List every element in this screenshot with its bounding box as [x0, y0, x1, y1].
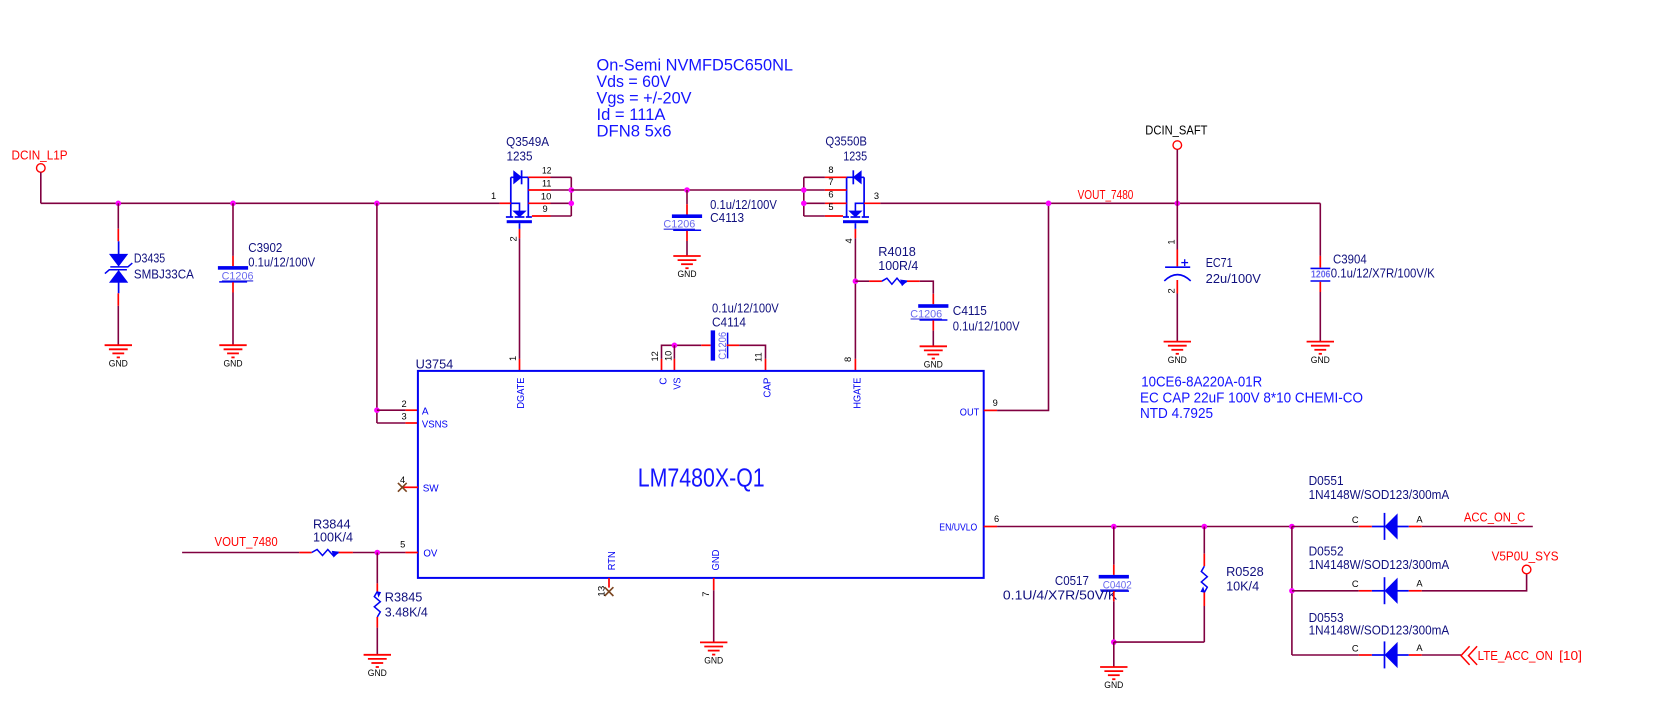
pin stub C0517 bottom	[1113, 591, 1115, 601]
pin stub R4018 right	[907, 280, 920, 282]
node junction C0517/R0528 bottom	[1111, 639, 1117, 645]
wire main input net y=203	[41, 202, 500, 204]
svg-text:GND: GND	[1168, 355, 1187, 365]
capacitor C4115	[918, 304, 948, 308]
svg-text:10: 10	[541, 192, 552, 202]
svg-text:GND: GND	[1311, 355, 1330, 365]
node junction at D3435	[116, 201, 122, 207]
ground C3902	[219, 344, 246, 346]
wire D0552 anode to V5P0U_SYS	[1422, 574, 1527, 591]
svg-text:1: 1	[508, 356, 518, 361]
pin stub R3845 bottom	[376, 617, 378, 628]
svg-text:7: 7	[701, 592, 711, 597]
ground R3845	[364, 654, 391, 656]
svg-text:11: 11	[542, 178, 551, 188]
svg-text:1235: 1235	[507, 150, 533, 164]
svg-text:DCIN_SAFT: DCIN_SAFT	[1145, 123, 1207, 138]
svg-text:10CE6-8A220A-01R: 10CE6-8A220A-01R	[1141, 374, 1262, 391]
op-amp U3754 IC body	[418, 371, 984, 578]
wire C4113 branch	[686, 190, 688, 204]
svg-text:CAP: CAP	[763, 377, 774, 397]
node junction at DCIN_SAFT drop	[1175, 201, 1181, 207]
svg-text:GND: GND	[711, 550, 722, 571]
svg-text:6: 6	[828, 190, 833, 200]
wire VOUT_7480 net y=203	[880, 202, 1320, 204]
wire EN/UVLO net	[997, 526, 1292, 528]
wire Q3550B bus	[803, 177, 805, 216]
svg-text:LTE_ACC_ON: LTE_ACC_ON	[1478, 649, 1553, 663]
pin stub C4114 right	[727, 344, 740, 346]
svg-text:1235: 1235	[843, 150, 867, 164]
node junction drain pin10	[569, 201, 575, 207]
svg-text:RTN: RTN	[607, 551, 618, 570]
node junction at A/VSNS drop	[374, 201, 380, 207]
pin stub VSNS (3)	[405, 422, 418, 424]
svg-text:GND: GND	[368, 668, 387, 678]
pin stub U3754 OV (5)	[405, 552, 418, 554]
svg-text:SMBJ33CA: SMBJ33CA	[134, 267, 195, 281]
svg-text:1206: 1206	[1311, 268, 1331, 280]
ground C0517	[1100, 666, 1127, 668]
wire to D0552	[1292, 590, 1359, 592]
wire HGATE net Q3550B pin4 to U3754 pin8	[854, 238, 856, 359]
pin stub C4115 top	[932, 294, 934, 304]
pin stub U3754 C (12)	[661, 359, 663, 371]
pin stub C4115 bottom	[932, 320, 934, 330]
node junction R4018 tap	[853, 278, 859, 284]
svg-text:A: A	[1416, 579, 1423, 589]
svg-text:A: A	[1416, 643, 1423, 653]
node junction R0528	[1202, 524, 1208, 530]
svg-text:100K/4: 100K/4	[313, 531, 353, 545]
pin stub C4113 top	[686, 204, 688, 214]
wire C3904 to ground	[1319, 292, 1321, 342]
svg-text:22u/100V: 22u/100V	[1206, 272, 1262, 286]
svg-text:Vgs = +/-20V: Vgs = +/-20V	[597, 90, 692, 108]
wire to D0553	[1292, 654, 1359, 656]
node junction diode branch	[1289, 524, 1295, 530]
pin stub R0528 top	[1203, 554, 1205, 567]
wire R3845 to ground	[376, 628, 378, 655]
svg-text:SW: SW	[423, 483, 440, 494]
diode D0552	[1372, 590, 1385, 592]
node junction VOUT at x=1048	[1046, 201, 1052, 207]
svg-text:VOUT_7480: VOUT_7480	[1078, 187, 1134, 202]
svg-text:0.1u/12/100V: 0.1u/12/100V	[248, 255, 315, 269]
svg-text:9: 9	[993, 398, 998, 408]
terminal DCIN_L1P	[37, 164, 46, 173]
svg-text:D0552: D0552	[1309, 545, 1344, 559]
svg-text:C: C	[1352, 643, 1359, 653]
pin stub C0517 top	[1113, 565, 1115, 575]
wire VOUT lower net	[182, 552, 299, 554]
pin stub U3754 SW (4) with no-connect	[403, 486, 418, 488]
svg-text:NTD 4.7925: NTD 4.7925	[1140, 405, 1213, 422]
pin stub Q3549A gate pin1	[500, 202, 511, 204]
svg-text:3.48K/4: 3.48K/4	[385, 606, 428, 620]
svg-text:1N4148W/SOD123/300mA: 1N4148W/SOD123/300mA	[1309, 488, 1450, 502]
pin stub U3754 CAP (11)	[765, 359, 767, 371]
off-page connector LTE_ACC_ON	[1461, 646, 1470, 665]
svg-text:Q3549A: Q3549A	[506, 135, 550, 149]
svg-text:4: 4	[400, 475, 405, 485]
ground D3435	[105, 344, 132, 346]
svg-text:R3845: R3845	[385, 590, 423, 604]
node junction at C3902	[230, 201, 236, 207]
pin stub A (2)	[405, 409, 418, 411]
resistor R3845	[374, 592, 380, 618]
wire D3435 to ground	[117, 306, 119, 345]
svg-text:10: 10	[664, 351, 674, 361]
pin stub R4018 left	[869, 280, 882, 282]
wire U3754 GND pin to ground	[713, 590, 715, 642]
svg-text:R4018: R4018	[878, 245, 916, 259]
capacitor C3904	[1311, 267, 1331, 269]
pin stubs Q3549A drain 12/11/10/9	[528, 176, 550, 178]
resistor R0528	[1201, 566, 1207, 592]
svg-text:3: 3	[402, 412, 407, 422]
svg-text:V5P0U_SYS: V5P0U_SYS	[1492, 549, 1559, 563]
svg-text:ACC_ON_C: ACC_ON_C	[1464, 511, 1525, 525]
svg-text:12: 12	[542, 165, 551, 175]
svg-text:OUT: OUT	[960, 407, 979, 418]
pin stub R0528 bottom	[1203, 593, 1205, 607]
node junction pin A	[374, 407, 380, 413]
pin stub R3844 right	[339, 552, 353, 554]
capacitor C4113	[672, 214, 702, 218]
wire D0553 anode to off-page	[1422, 654, 1461, 656]
svg-text:[10]: [10]	[1559, 649, 1582, 663]
svg-text:R0528: R0528	[1226, 565, 1264, 579]
svg-text:9: 9	[543, 204, 548, 214]
ground U3754 pin7	[700, 641, 727, 643]
svg-text:8: 8	[843, 357, 853, 362]
wire to R4018	[855, 280, 869, 282]
svg-text:7: 7	[828, 177, 833, 187]
wire VS/C pins to C4114	[662, 345, 702, 359]
wire bottom link to R0528	[1114, 641, 1205, 643]
pin stub C3902 top	[232, 256, 234, 266]
diode D0553	[1372, 654, 1385, 656]
capacitor C3902	[218, 266, 248, 270]
svg-text:GND: GND	[224, 358, 243, 368]
svg-text:HGATE: HGATE	[852, 377, 863, 408]
wire EC71 branch	[1176, 203, 1178, 249]
pin stubs Q3550B 8/7/6/5	[825, 176, 847, 178]
pin stub C3904 top	[1319, 256, 1321, 268]
svg-text:GND: GND	[1104, 680, 1123, 690]
wire middle net y=190	[571, 189, 804, 191]
node junction OV	[375, 550, 381, 556]
ground C3904	[1307, 341, 1334, 343]
svg-text:On-Semi NVMFD5C650NL: On-Semi NVMFD5C650NL	[597, 56, 794, 74]
wire R0528 branch	[1203, 527, 1205, 554]
pin stub R3845 top	[376, 583, 378, 591]
svg-text:DCIN_L1P: DCIN_L1P	[12, 148, 68, 163]
svg-text:D0551: D0551	[1309, 474, 1344, 488]
svg-text:C4114: C4114	[712, 316, 746, 330]
wire C3902 branch upper	[232, 203, 234, 256]
terminal DCIN_SAFT	[1173, 141, 1182, 150]
pin stub D3435 bottom	[117, 293, 119, 306]
resistor R3844	[312, 550, 339, 556]
pin stub U3754 GND (7)	[713, 578, 715, 590]
svg-text:C3902: C3902	[248, 241, 282, 255]
svg-text:C4113: C4113	[710, 211, 744, 225]
pin stub C3902 bottom	[232, 282, 234, 292]
wire DCIN_L1P vertical drop	[40, 172, 42, 203]
svg-text:D3435: D3435	[134, 252, 165, 266]
diode D3435 TVS symbol	[118, 241, 120, 254]
resistor R4018	[882, 278, 907, 284]
pin stub U3754 EN (6)	[984, 526, 997, 528]
svg-text:C: C	[658, 378, 669, 385]
svg-text:12: 12	[650, 351, 660, 361]
wire DCIN_SAFT drop	[1176, 150, 1178, 204]
svg-text:5: 5	[828, 202, 833, 212]
wire OUT pin to VOUT net	[997, 203, 1048, 410]
svg-text:0.1U/4/X7R/50V/K: 0.1U/4/X7R/50V/K	[1003, 588, 1118, 602]
pin stub EC71 top	[1176, 250, 1178, 267]
svg-text:10K/4: 10K/4	[1226, 580, 1259, 594]
capacitor C4114	[711, 330, 715, 360]
wire R0528 to bottom junction	[1203, 606, 1205, 642]
capacitor C0517	[1099, 575, 1129, 579]
pin stub U3754 DGATE (1)	[519, 359, 521, 371]
pin stub C3904 bottom	[1319, 282, 1321, 292]
svg-text:1: 1	[1166, 239, 1176, 244]
wire C3904 branch	[1319, 203, 1321, 256]
wire A/VSNS vertical	[376, 203, 378, 423]
svg-text:VSNS: VSNS	[422, 419, 448, 430]
svg-text:EN/UVLO: EN/UVLO	[939, 522, 977, 533]
pin stub D3435 top	[117, 229, 119, 242]
wire C4114 to CAP pin	[739, 345, 765, 359]
svg-text:Id = 111A: Id = 111A	[597, 106, 666, 124]
node junction Q3550B pin6	[801, 201, 807, 207]
wire EC71 to ground	[1176, 294, 1178, 342]
svg-text:GND: GND	[704, 656, 723, 666]
pin stub EC71 bottom	[1176, 280, 1178, 294]
node junction C0517	[1111, 524, 1117, 530]
diode D0551	[1372, 526, 1385, 528]
wire C0517 branch	[1113, 527, 1115, 565]
svg-text:0.1u/12/100V: 0.1u/12/100V	[712, 302, 779, 316]
pin stub U3754 VS (10)	[673, 359, 675, 371]
svg-text:1: 1	[491, 191, 496, 201]
svg-text:11: 11	[754, 352, 764, 362]
node junction D0552	[1289, 588, 1295, 594]
svg-text:C: C	[1352, 579, 1359, 589]
wire C0517 to bottom junction	[1113, 601, 1115, 642]
svg-text:Vds = 60V: Vds = 60V	[597, 73, 671, 91]
svg-text:C4115: C4115	[953, 304, 987, 318]
svg-text:VOUT_7480: VOUT_7480	[215, 534, 278, 549]
svg-text:0.1u/12/100V: 0.1u/12/100V	[710, 198, 777, 212]
svg-text:2: 2	[1166, 288, 1176, 293]
wire C4113 to ground	[686, 241, 688, 256]
svg-text:U3754: U3754	[416, 357, 454, 371]
node junction at C4113	[684, 187, 690, 193]
node junction VS pin	[672, 343, 678, 349]
svg-text:Q3550B: Q3550B	[825, 135, 867, 149]
wire to pin A	[377, 409, 406, 411]
wire C0517 junction to ground	[1113, 642, 1115, 667]
pin stub Q3549A pin2 stem	[519, 229, 521, 238]
svg-text:5: 5	[400, 540, 405, 550]
pin stub C4114 left	[701, 344, 711, 346]
wire R4018 to C4115	[920, 281, 934, 294]
svg-text:R3844: R3844	[313, 517, 351, 531]
svg-text:GND: GND	[109, 358, 128, 368]
svg-text:C: C	[1352, 515, 1359, 525]
ground C4115	[920, 345, 947, 347]
svg-text:OV: OV	[423, 549, 437, 560]
svg-text:6: 6	[994, 514, 999, 524]
svg-text:VS: VS	[672, 377, 683, 389]
svg-text:13: 13	[597, 586, 607, 597]
svg-text:0.1u/12/X7R/100V/K: 0.1u/12/X7R/100V/K	[1331, 266, 1436, 280]
svg-text:LM7480X-Q1: LM7480X-Q1	[638, 463, 765, 493]
wire diode branch vertical	[1291, 527, 1293, 656]
wire VS pin drop	[673, 345, 675, 359]
wire DGATE net Q3549A pin2 to U3754 pin1	[519, 238, 521, 359]
pin stub U3754 OUT (9)	[984, 409, 997, 411]
pin stub U3754 RTN (13) with no-connect	[608, 578, 610, 588]
capacitor EC71 electrolytic	[1165, 266, 1190, 268]
pin stub C4113 bottom	[686, 231, 688, 241]
svg-text:2: 2	[509, 236, 519, 241]
wire D3435 branch upper	[117, 203, 119, 229]
wire to D0551	[1292, 526, 1359, 528]
svg-text:100R/4: 100R/4	[878, 259, 918, 273]
svg-text:A: A	[1416, 514, 1423, 524]
terminal V5P0U_SYS	[1522, 565, 1531, 574]
pin stub R3844 left	[299, 552, 311, 554]
node junction Q3550B pin7	[801, 187, 807, 193]
svg-text:1N4148W/SOD123/300mA: 1N4148W/SOD123/300mA	[1309, 624, 1450, 638]
svg-text:0.1u/12/100V: 0.1u/12/100V	[953, 320, 1020, 334]
svg-text:DFN8 5x6: DFN8 5x6	[597, 123, 672, 141]
svg-text:DGATE: DGATE	[516, 377, 527, 408]
wire D0551 anode to ACC_ON_C	[1422, 526, 1533, 528]
ground EC71	[1164, 341, 1191, 343]
svg-text:EC71: EC71	[1206, 256, 1233, 270]
svg-text:3: 3	[874, 191, 879, 201]
svg-text:C3904: C3904	[1333, 253, 1367, 267]
ground C4113	[673, 255, 700, 257]
wire Q3549A drain bus	[570, 177, 572, 216]
pin stub Q3550B pin4 stem	[854, 229, 856, 238]
pin stub U3754 HGATE (8)	[854, 359, 856, 371]
svg-text:1N4148W/SOD123/300mA: 1N4148W/SOD123/300mA	[1309, 558, 1450, 572]
svg-text:2: 2	[402, 399, 407, 409]
wire R3844 to OV	[353, 552, 406, 554]
svg-text:EC CAP 22uF 100V 8*10 CHEMI-CO: EC CAP 22uF 100V 8*10 CHEMI-CO	[1140, 390, 1363, 407]
wire C3902 to ground	[232, 293, 234, 346]
svg-text:GND: GND	[678, 269, 697, 279]
wire C4115 to ground	[932, 331, 934, 347]
wire to pin VSNS	[377, 422, 406, 424]
svg-text:GND: GND	[924, 360, 943, 370]
svg-text:4: 4	[844, 238, 854, 243]
wire OV junction down	[376, 553, 378, 584]
svg-text:8: 8	[828, 165, 833, 175]
svg-text:D0553: D0553	[1309, 611, 1344, 625]
svg-text:C0517: C0517	[1055, 574, 1089, 588]
pin stub Q3550B pin3	[864, 202, 880, 204]
node junction drain pin11	[569, 187, 575, 193]
svg-text:A: A	[422, 407, 429, 418]
